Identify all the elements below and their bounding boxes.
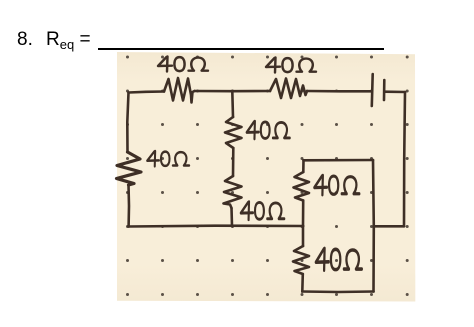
node B junction middle bottom — [231, 225, 234, 228]
resistor R1 40ohm top-left — [164, 78, 195, 103]
label 40ohm R2 — [266, 58, 316, 73]
photo of paper — [117, 52, 415, 302]
wire R2 to battery — [307, 90, 371, 93]
resistor R5 40ohm middle lower — [224, 176, 242, 208]
wire left side upper — [127, 93, 128, 153]
wire inner box right — [372, 160, 375, 292]
battery BT1 — [370, 74, 374, 106]
resistor R4 40ohm middle upper — [225, 117, 242, 148]
resistor R7 40ohm box lower — [293, 246, 309, 274]
wire inner box bottom — [302, 290, 373, 293]
node C junction box left with bottom wire — [302, 225, 305, 228]
label 40ohm R5 — [241, 202, 284, 220]
wire left side lower — [127, 185, 130, 227]
wire box left middle — [302, 201, 305, 227]
answer blank line — [98, 48, 384, 50]
printed question number "8." — [17, 30, 33, 49]
wire top between node A and R2 — [232, 90, 270, 93]
wire middle branch between resistors — [232, 148, 235, 176]
wire middle branch upper — [231, 91, 234, 117]
wire top-middle — [195, 90, 233, 93]
resistor R6 40ohm box upper — [294, 172, 310, 201]
label 40ohm R4 — [247, 121, 290, 139]
wire box left bottom — [301, 274, 304, 292]
wire bottom — [129, 224, 303, 227]
resistor R3 40ohm left — [117, 152, 142, 185]
wire stub to inner loop — [374, 225, 404, 228]
wire box left lower — [302, 226, 305, 246]
wire middle branch to bottom — [230, 208, 233, 226]
label 40ohm R1 — [158, 57, 208, 72]
printed label "Req =" — [46, 30, 91, 51]
wire inner box top — [304, 159, 374, 162]
resistor R2 40ohm top-right — [270, 79, 307, 99]
wire battery to top-right corner — [385, 90, 406, 93]
label 40ohm R7 — [316, 248, 362, 270]
label 40ohm R3 — [147, 151, 189, 166]
label 40ohm R6 — [314, 175, 359, 195]
wire right side — [404, 92, 405, 226]
wire top-left — [129, 92, 165, 93]
wire inner box left upper — [302, 160, 305, 172]
node A junction top of middle branch — [231, 90, 234, 93]
